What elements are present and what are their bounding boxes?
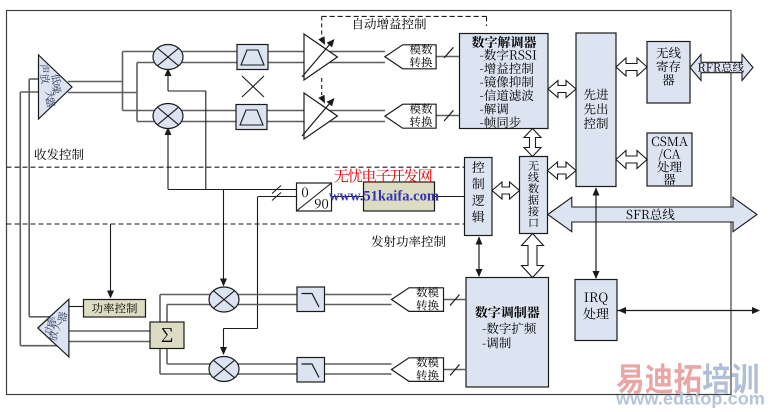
block 数字解调器	[460, 34, 549, 129]
arrow 接口-FIFO	[548, 162, 577, 179]
wire RX split vertical 1	[122, 52, 124, 111]
wire DAC2 to modulator	[444, 369, 467, 371]
wire TX I pair	[160, 294, 239, 296]
arrow into TX mixer1	[220, 279, 227, 287]
wire LNA input lower	[20, 91, 38, 93]
arrow into RX mixer1	[165, 68, 172, 76]
DAC I block	[392, 288, 444, 312]
LNA label 低噪声放大器	[39, 63, 50, 74]
VGA Q gain arrow	[302, 100, 333, 137]
wire 0/90 to synthesizer	[332, 196, 364, 198]
wire LO upper 0deg	[168, 189, 297, 191]
VGA amplifier Q	[304, 93, 337, 139]
wire TX Q pair	[160, 373, 239, 375]
VGA I gain arrow	[302, 41, 333, 78]
bus RFR总线 arrow	[690, 55, 753, 81]
svg-text:www.51kaifa.com: www.51kaifa.com	[329, 189, 439, 205]
bus slash DAC2	[450, 365, 460, 376]
wire LO jog to RX mixer1	[205, 91, 207, 190]
wire LNA out upper	[68, 81, 123, 83]
VGA amplifier I	[304, 34, 337, 80]
arrow 解调器-FIFO	[548, 81, 576, 98]
block 0/90 phase splitter	[297, 183, 332, 211]
mixer TX Q	[209, 357, 239, 382]
label 收发控制	[35, 148, 84, 160]
mixer RX I	[153, 45, 183, 70]
dashed line RX/TX control	[7, 166, 465, 168]
lowpass filter Q	[297, 358, 325, 383]
block 先进先出控制	[576, 33, 616, 187]
DAC Q block	[392, 358, 444, 382]
cross-coupling X	[242, 76, 264, 97]
ADC Q block	[385, 104, 436, 128]
wire ADC2 to demodulator	[436, 115, 460, 117]
PA label 功率放大器	[57, 311, 68, 322]
block 数字调制器	[466, 278, 549, 388]
wire PA outputs	[29, 316, 50, 318]
arrow IRQ-right bus	[617, 310, 759, 312]
wire sum to PA	[69, 330, 150, 332]
block summation Σ	[150, 322, 184, 349]
arrow AGC into VGA2	[318, 95, 325, 104]
bus slash LO upper	[272, 186, 281, 194]
bandpass filter I	[237, 45, 268, 70]
wire RX Q path upper	[123, 110, 386, 112]
LNA amplifier triangle	[39, 55, 73, 119]
wire RX split vertical 2	[136, 63, 138, 122]
arrow 发射功率控制 to 功率控制	[110, 224, 112, 298]
bandpass filter Q	[236, 105, 267, 130]
bus slash ADC Q	[444, 110, 453, 121]
wire LO lower 90deg	[258, 196, 297, 198]
arrow into RX mixer2	[165, 127, 172, 135]
bus slash ADC I	[444, 47, 453, 58]
wire LO to TX mixer2	[257, 197, 259, 329]
arrow FIFO-CSMA	[616, 151, 647, 169]
block 控制逻辑	[465, 158, 493, 236]
lowpass filter I	[297, 287, 325, 312]
dashed AGC top line	[322, 15, 487, 17]
block frequency synthesizer	[364, 182, 435, 211]
wire RX I path lower	[137, 62, 385, 64]
bus SFR总线 arrow	[548, 197, 757, 231]
wire PA to 功率控制	[69, 306, 84, 308]
dashed AGC vertical to VGA2	[321, 78, 323, 95]
wire LNA out lower	[68, 92, 137, 94]
label 自动增益控制	[354, 18, 426, 30]
wire DAC1 to modulator	[444, 299, 467, 301]
dashed AGC vertical to VGA1	[321, 16, 323, 38]
arrow AGC into VGA1	[318, 36, 325, 45]
block 无线数据接口	[520, 157, 548, 234]
arrow 控制逻辑-调制器	[478, 237, 480, 276]
mixer RX Q	[153, 104, 183, 129]
block CSMA/CA处理器	[647, 133, 692, 186]
arrow FIFO-寄存器	[616, 58, 647, 76]
wire RX I path upper	[123, 51, 386, 53]
wire TX Q to sum	[159, 349, 161, 375]
dashed line TX power control	[7, 223, 465, 225]
label 发射功率控制	[371, 235, 445, 247]
wire LNA input upper	[29, 78, 38, 80]
arrow FIFO-IRQ	[595, 188, 597, 278]
mixer TX I	[209, 287, 239, 312]
wire TX I mixer-LPF-DAC	[209, 294, 392, 296]
wire synthesizer to control logic	[435, 196, 465, 198]
arrow 接口-调制器	[522, 234, 544, 278]
PA power amplifier triangle	[38, 299, 69, 357]
wire antenna vertical 1	[28, 79, 30, 317]
wire LO to TX mixer1	[223, 190, 225, 286]
bus slash LO lower	[272, 193, 281, 201]
ADC I block	[385, 45, 436, 69]
wire LO to RX mixer2	[167, 128, 169, 190]
wire ADC1 to demodulator	[436, 56, 460, 58]
svg-text:www.edatop.com: www.edatop.com	[615, 389, 765, 409]
arrow 控制逻辑-接口	[492, 182, 520, 199]
block 无线寄存器	[647, 42, 690, 104]
wire TX Q mixer-LPF-DAC	[209, 363, 392, 365]
block IRQ处理	[575, 280, 617, 341]
watermark 易迪拓培训	[617, 363, 758, 394]
arrow into TX mixer2	[220, 347, 227, 355]
watermark 无忧电子开发网	[334, 169, 432, 183]
arrow 解调器-接口	[524, 129, 541, 157]
bus slash DAC1	[450, 295, 460, 306]
wire TX I to sum	[159, 295, 161, 323]
block 功率控制	[84, 300, 146, 318]
wire antenna vertical 2	[19, 92, 21, 346]
wire RX Q path lower	[137, 121, 385, 123]
